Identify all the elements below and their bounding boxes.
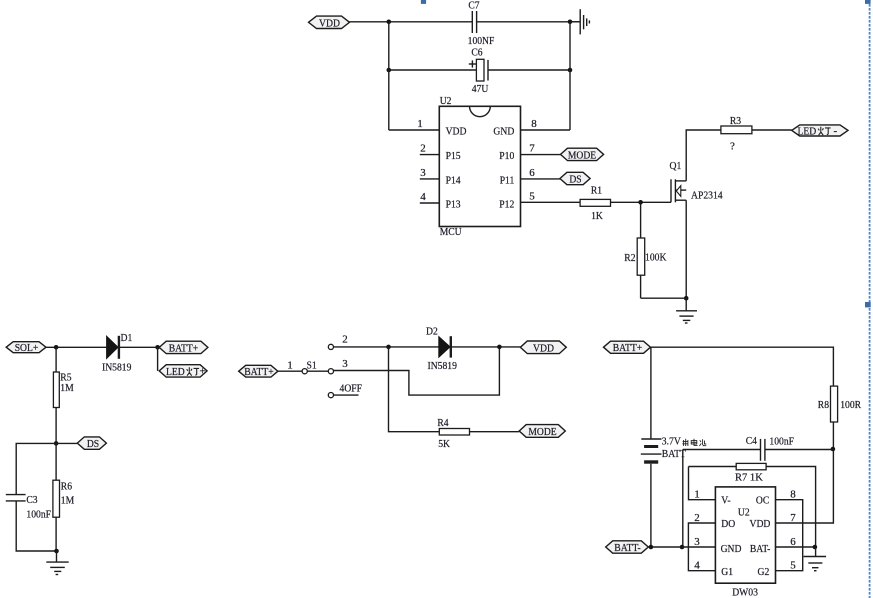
net label LED灯- xyxy=(792,125,848,138)
node junction SOL+/R5 xyxy=(54,345,59,350)
svg-text:SOL+: SOL+ xyxy=(15,342,39,354)
wire junction A down to R4 xyxy=(389,347,440,432)
wire contact 2 to D2 anode xyxy=(334,346,439,348)
capacitor C4 xyxy=(746,435,794,461)
svg-text:100nF: 100nF xyxy=(26,509,51,521)
wire R4 to MODE label xyxy=(470,431,520,433)
svg-text:VDD: VDD xyxy=(750,518,771,530)
svg-text:C6: C6 xyxy=(471,47,483,59)
node junction BATT- row / C4 branch xyxy=(680,545,685,550)
svg-text:7: 7 xyxy=(529,143,535,155)
svg-text:2: 2 xyxy=(342,334,348,346)
resistor R5 xyxy=(53,347,73,443)
svg-text:G2: G2 xyxy=(758,566,770,578)
svg-text:P15: P15 xyxy=(446,150,461,162)
node junction A (contact2/R4) xyxy=(386,345,391,350)
svg-text:V-: V- xyxy=(721,495,731,507)
wire D1 cathode to BATT+ label xyxy=(120,346,159,348)
svg-text:2: 2 xyxy=(694,512,700,524)
svg-text:R8: R8 xyxy=(818,399,830,411)
node junction B (D2/VDD) xyxy=(497,345,502,350)
wire pin 1 VDD xyxy=(389,129,440,131)
switch S1 xyxy=(302,334,362,398)
svg-text:MODE: MODE xyxy=(528,426,557,438)
svg-text:1K: 1K xyxy=(591,210,603,222)
svg-text:R3: R3 xyxy=(730,115,742,127)
node junction C7 row right xyxy=(568,20,573,25)
svg-text:DS: DS xyxy=(569,174,581,186)
resistor R6 xyxy=(53,443,74,551)
wire C6 row left xyxy=(389,69,477,71)
resistor R3 xyxy=(721,115,752,153)
battery BATT 3.7V xyxy=(641,347,707,547)
wire VDD to C7 left xyxy=(350,21,473,23)
ground (bottom left) xyxy=(46,551,68,575)
svg-text:GND: GND xyxy=(721,543,742,555)
net label BATT- xyxy=(606,541,649,554)
net label BATT+ (middle) xyxy=(239,365,278,378)
svg-text:MCU: MCU xyxy=(440,226,462,238)
selection marquee dashed edge xyxy=(869,0,871,598)
wire R7 right down to pin6 row xyxy=(766,467,816,548)
wire SOL+ to D1 anode xyxy=(46,346,107,348)
svg-text:C7: C7 xyxy=(468,0,480,12)
resistor R8 xyxy=(818,386,862,449)
svg-text:D1: D1 xyxy=(121,332,133,344)
svg-text:G1: G1 xyxy=(721,566,733,578)
ground (DW03) xyxy=(804,547,827,571)
svg-text:LED: LED xyxy=(166,366,185,378)
svg-text:R1: R1 xyxy=(591,185,602,197)
node junction ground bottom left xyxy=(54,549,59,554)
wire C3 bottom to ground row xyxy=(16,501,57,551)
wire C4 right to junction xyxy=(765,449,833,451)
resistor R2 xyxy=(624,202,666,298)
net label MODE (middle) xyxy=(519,425,565,438)
diode D2 IN5819 xyxy=(426,326,457,372)
svg-text:1: 1 xyxy=(287,360,293,372)
wire R1 to Q1 gate xyxy=(611,201,672,203)
svg-text:5: 5 xyxy=(790,560,796,572)
wire source down to ground row xyxy=(685,200,687,298)
svg-text:IN5819: IN5819 xyxy=(428,360,458,372)
wire R7 left down to pin 1 xyxy=(689,467,716,500)
svg-text:U2: U2 xyxy=(440,95,452,107)
capacitor C7 xyxy=(468,0,495,47)
svg-text:1M: 1M xyxy=(61,495,75,507)
power flag VDD (top left) xyxy=(309,16,350,30)
svg-text:DO: DO xyxy=(721,518,735,530)
ground (below Q1) xyxy=(676,298,697,323)
svg-text:100K: 100K xyxy=(645,251,666,263)
svg-text:100R: 100R xyxy=(840,399,861,411)
svg-text:D2: D2 xyxy=(426,326,438,338)
svg-text:P10: P10 xyxy=(499,150,514,162)
svg-text:P11: P11 xyxy=(500,175,515,187)
wire BATT- row to pin 3 xyxy=(648,546,715,548)
svg-text:OC: OC xyxy=(756,495,769,507)
wire C7 right to ground xyxy=(477,21,580,23)
svg-text:5: 5 xyxy=(529,190,535,202)
svg-text:VDD: VDD xyxy=(319,18,340,30)
wire left vertical VDD rail down to pin 1 xyxy=(388,22,390,130)
wire down to LED+ label xyxy=(157,347,159,371)
wire BATT+ to S1 common xyxy=(278,370,302,372)
wire drain up to R3 row xyxy=(686,130,721,181)
svg-text:4OFF: 4OFF xyxy=(340,383,363,395)
svg-text:R2: R2 xyxy=(624,252,635,264)
node junction C6 row left xyxy=(387,68,392,73)
svg-text:1M: 1M xyxy=(60,382,74,394)
svg-text:5K: 5K xyxy=(438,438,450,450)
resistor R1 xyxy=(580,185,610,222)
net label VDD (middle) xyxy=(520,341,566,354)
svg-text:6: 6 xyxy=(790,536,796,548)
selection handle middle right xyxy=(865,302,871,307)
svg-text:DW03: DW03 xyxy=(732,587,758,598)
svg-text:Q1: Q1 xyxy=(670,160,682,172)
net label BATT+ (bottom right) xyxy=(604,341,651,354)
svg-text:?: ? xyxy=(730,141,735,153)
wire junction to DS label xyxy=(56,442,77,444)
svg-text:BATT+: BATT+ xyxy=(613,342,643,354)
wire pin 5 to R1 xyxy=(521,201,581,203)
svg-text:+: + xyxy=(200,366,206,378)
svg-text:3: 3 xyxy=(342,358,348,370)
svg-text:8: 8 xyxy=(531,118,537,130)
svg-text:BATT+: BATT+ xyxy=(244,366,274,378)
wire R3 to LED- label xyxy=(752,129,792,131)
svg-text:6: 6 xyxy=(529,167,535,179)
capacitor C6 (electrolytic, polarized) xyxy=(469,47,489,95)
node junction battery/BATT- xyxy=(649,545,654,550)
svg-text:C3: C3 xyxy=(26,494,38,506)
wire pin 7 to R8/C4 node xyxy=(776,450,834,524)
wire battery top branch to C4 row xyxy=(683,449,761,451)
svg-text:8: 8 xyxy=(790,489,796,501)
node junction source/ground xyxy=(684,296,689,301)
resistor R7 xyxy=(689,463,767,483)
wire pin 2 stub xyxy=(420,154,440,156)
node junction C6 row right xyxy=(568,68,573,73)
svg-text:3.7V: 3.7V xyxy=(662,437,682,448)
svg-text:3: 3 xyxy=(420,167,426,179)
svg-text:LED: LED xyxy=(798,125,817,137)
svg-text:AP2314: AP2314 xyxy=(691,190,723,202)
wire pins 2,3,4 tie bracket xyxy=(688,523,715,571)
svg-text:VDD: VDD xyxy=(446,126,467,138)
svg-text:R7 1K: R7 1K xyxy=(735,471,763,483)
svg-text:GND: GND xyxy=(493,126,514,138)
net label BATT+ (bottom left) xyxy=(159,341,208,354)
wire contact 3 loop to VDD node xyxy=(334,347,500,395)
IC U2 DW03 body xyxy=(715,487,775,598)
wire pin 6 to ground node xyxy=(776,546,816,548)
wire battery branch vertical down to BATT- row xyxy=(682,450,684,548)
net label LED灯+ xyxy=(159,365,207,378)
svg-text:3: 3 xyxy=(694,536,700,548)
svg-text:BATT+: BATT+ xyxy=(169,342,199,354)
svg-text:100nF: 100nF xyxy=(769,436,794,448)
svg-text:100NF: 100NF xyxy=(468,35,495,47)
svg-text:BATT-: BATT- xyxy=(614,542,641,554)
selection handle top middle xyxy=(421,0,426,4)
wire pin 7 to MODE xyxy=(521,154,561,156)
wire pin 6 to DS xyxy=(521,178,560,180)
selection handle top right xyxy=(865,0,871,4)
svg-text:2: 2 xyxy=(420,143,426,155)
node junction C4/R8 xyxy=(831,447,836,452)
svg-text:P14: P14 xyxy=(446,175,461,187)
net label SOL+ xyxy=(6,342,46,355)
diode D1 IN5819 xyxy=(102,332,132,373)
svg-text:VDD: VDD xyxy=(533,342,554,354)
svg-text:1: 1 xyxy=(694,489,700,501)
IC U2 MCU body xyxy=(439,95,520,238)
net label MODE (pin 7) xyxy=(561,148,604,161)
svg-text:-: - xyxy=(834,125,838,137)
svg-text:R6: R6 xyxy=(61,481,73,493)
svg-text:47U: 47U xyxy=(472,83,489,95)
svg-text:U2: U2 xyxy=(738,507,750,519)
wire pin 3 stub xyxy=(420,178,440,180)
transistor Q1 AP2314 (P-MOSFET) xyxy=(670,160,724,202)
wire pins 8,5 tie bracket xyxy=(776,500,803,571)
resistor R4 xyxy=(437,417,469,450)
node junction pin6/R7/ground xyxy=(813,545,818,550)
wire pin 4 stub xyxy=(420,202,440,204)
wire R2 bottom to source node xyxy=(641,297,687,299)
node junction gate / R2 xyxy=(638,200,643,205)
capacitor C3 xyxy=(6,494,51,521)
svg-text:4: 4 xyxy=(694,560,700,572)
svg-text:P12: P12 xyxy=(499,199,514,211)
svg-text:BAT-: BAT- xyxy=(750,543,771,555)
net label DS (divider) xyxy=(77,437,106,450)
wire pin 8 GND to rail xyxy=(521,129,571,131)
wire right vertical GND rail down to pin 8 xyxy=(569,22,571,130)
svg-text:7: 7 xyxy=(790,512,796,524)
svg-text:R4: R4 xyxy=(437,417,449,429)
wire junction left to C3 branch xyxy=(16,443,56,494)
svg-text:P13: P13 xyxy=(446,199,461,211)
svg-text:DS: DS xyxy=(87,438,99,450)
svg-text:S1: S1 xyxy=(307,360,317,372)
wire D2 cathode to VDD label xyxy=(452,346,521,348)
node junction VDD/C7 row left xyxy=(387,20,392,25)
wire contact 4 stub xyxy=(334,394,359,396)
svg-text:MODE: MODE xyxy=(568,150,597,162)
wire BATT+ across top and down to R8 xyxy=(651,347,834,386)
svg-text:IN5819: IN5819 xyxy=(102,362,132,374)
node junction BATT+/LED+ xyxy=(155,345,160,350)
svg-text:1: 1 xyxy=(417,118,423,130)
svg-text:4: 4 xyxy=(420,191,426,203)
node junction DS row xyxy=(54,441,59,446)
ground (top right, sideways) xyxy=(570,9,589,34)
svg-text:C4: C4 xyxy=(746,435,758,447)
wire C6 row right xyxy=(488,69,570,71)
net label DS (pin 6) xyxy=(560,172,590,185)
